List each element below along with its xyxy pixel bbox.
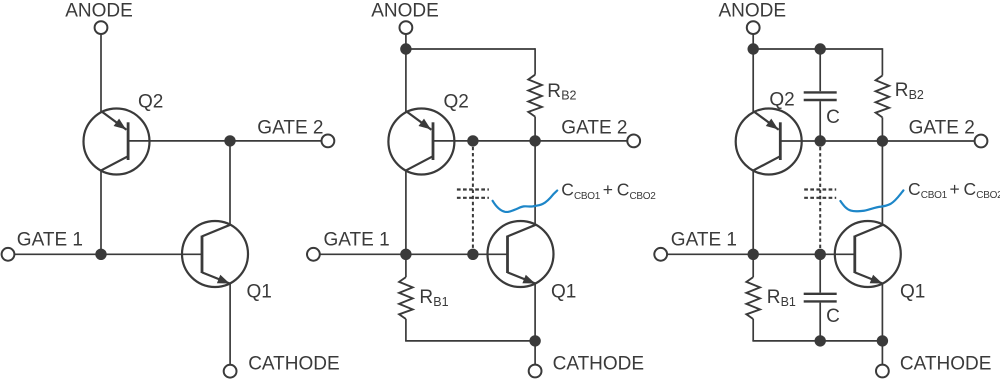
pointer curve to CCBO label (circuit 3) <box>840 190 903 211</box>
terminal ANODE (circuit 1) <box>95 21 108 34</box>
svg-text:GATE 1: GATE 1 <box>671 230 737 251</box>
terminal CATHODE (circuit 3) <box>876 365 889 378</box>
resistor RB1 (circuit 3) <box>746 277 760 319</box>
svg-text:C: C <box>826 306 840 327</box>
wire ANODE to Q2 emitter (circuit 2) <box>405 35 407 113</box>
svg-text:GATE 2: GATE 2 <box>561 117 627 138</box>
wire Q2 collector to GATE 1 node (circuit 3) <box>752 170 754 255</box>
wire RB1 top stub (circuit 2) <box>405 254 407 277</box>
transistor Q2 (PNP, circuit 2) <box>388 109 454 175</box>
label CCBO1 + CCBO2 (circuit 3) <box>908 179 1000 201</box>
junction Q2 collector / GATE 1 rail <box>95 249 106 260</box>
wire RB2 top stub (circuit 3) <box>881 48 883 75</box>
wire to CATHODE (circuit 2) <box>534 341 536 364</box>
svg-text:B2: B2 <box>561 89 576 103</box>
svg-text:Q1: Q1 <box>551 281 576 302</box>
svg-text:B1: B1 <box>781 295 796 309</box>
wire Q1 collector <box>229 141 231 225</box>
terminal GATE 2 (circuit 2) <box>627 135 640 148</box>
wire ANODE to Q2 emitter (circuit 3) <box>752 35 754 113</box>
wire Q2 collector to GATE 1 node (circuit 2) <box>405 170 407 255</box>
svg-text:C: C <box>617 180 630 200</box>
wire lower capacitor stub lower (circuit 3) <box>819 303 821 341</box>
wire GATE 1 rail (circuit 2) <box>320 253 508 255</box>
wire top capacitor stub upper <box>819 49 821 91</box>
junction RB2 / Q1 collector (circuit 2) <box>529 135 540 146</box>
junction RB1 / GATE 1 rail (circuit 2) <box>400 249 411 260</box>
junction dashed capacitor tap / GATE 2 rail <box>467 135 478 146</box>
terminal ANODE (circuit 3) <box>747 21 760 34</box>
resistor RB2 (circuit 3) <box>876 76 890 118</box>
svg-text:CBO2: CBO2 <box>630 191 657 202</box>
junction RB2 / Q1 collector (circuit 3) <box>877 135 888 146</box>
wire bottom rail (circuit 3) <box>752 340 882 342</box>
wire RB2 bottom stub <box>534 117 536 141</box>
terminal GATE 1 (circuit 1) <box>2 248 15 261</box>
svg-text:R: R <box>767 287 781 308</box>
wire top capacitor stub lower <box>819 101 821 141</box>
wire Q1 collector (circuit 2) <box>534 141 536 225</box>
label CCBO1 + CCBO2 (circuit 2) <box>561 180 656 202</box>
junction Q1 emitter / bottom rail (circuit 3) <box>877 335 888 346</box>
svg-text:CATHODE: CATHODE <box>553 353 644 374</box>
label RB2 (circuit 3) <box>895 80 924 102</box>
wire RB1 top stub (circuit 3) <box>752 254 754 277</box>
junction Q1 emitter / bottom rail (circuit 2) <box>529 335 540 346</box>
svg-text:Q2: Q2 <box>138 91 163 112</box>
svg-text:CBO2: CBO2 <box>976 190 1000 201</box>
svg-text:ANODE: ANODE <box>719 1 787 22</box>
wire Q1 emitter down (circuit 2) <box>534 284 536 341</box>
junction lower capacitor / bottom rail (circuit 3) <box>815 335 826 346</box>
wire RB2 bottom stub (circuit 3) <box>881 117 883 141</box>
svg-text:B2: B2 <box>909 88 924 102</box>
svg-text:R: R <box>895 80 909 101</box>
junction capacitor branch / top rail (circuit 3) <box>815 43 826 54</box>
junction capacitor branch / GATE 2 rail (circuit 3) <box>815 135 826 146</box>
svg-text:C: C <box>826 107 840 128</box>
svg-text:R: R <box>547 81 561 102</box>
wire lower capacitor stub upper (circuit 3) <box>819 254 821 292</box>
junction ANODE node (circuit 3) <box>748 43 759 54</box>
svg-text:C: C <box>964 179 977 199</box>
wire ANODE to Q2 emitter <box>100 35 102 113</box>
svg-text:B1: B1 <box>433 295 448 309</box>
svg-text:CBO1: CBO1 <box>921 190 948 201</box>
terminal GATE 1 (circuit 3) <box>654 248 667 261</box>
svg-text:R: R <box>419 287 433 308</box>
label RB1 (circuit 2) <box>419 287 448 309</box>
terminal CATHODE (circuit 1) <box>224 365 237 378</box>
wire RB1 bottom stub (circuit 3) <box>752 319 754 341</box>
transistor Q1 (NPN, circuit 3) <box>835 221 901 287</box>
svg-text:ANODE: ANODE <box>65 1 133 22</box>
svg-text:Q1: Q1 <box>247 281 272 302</box>
wire Q2 collector to GATE 1 node <box>100 170 102 255</box>
svg-text:CATHODE: CATHODE <box>248 353 339 374</box>
transistor Q2 (PNP, circuit 1) <box>84 109 150 175</box>
terminal GATE 2 (circuit 1) <box>322 135 335 148</box>
capacitor CCBO1+CCBO2 dashed plates (circuit 2) <box>457 188 489 190</box>
wire GATE 2 rail <box>128 140 322 142</box>
transistor Q1 (NPN, circuit 2) <box>488 221 554 287</box>
svg-text:C: C <box>908 179 921 199</box>
terminal CATHODE (circuit 2) <box>529 365 542 378</box>
capacitor C upper (circuit 3) <box>804 91 837 93</box>
terminal GATE 2 (circuit 3) <box>975 135 988 148</box>
svg-text:ANODE: ANODE <box>371 1 439 22</box>
wire GATE 1 rail <box>14 253 202 255</box>
wire bottom rail (circuit 2) <box>405 340 535 342</box>
wire to CATHODE (circuit 3) <box>881 341 883 364</box>
transistor Q2 (PNP, circuit 3) <box>736 109 802 175</box>
svg-text:Q2: Q2 <box>769 90 794 111</box>
wire GATE 2 rail (circuit 3) <box>780 140 974 142</box>
svg-text:+: + <box>603 180 613 200</box>
junction dashed capacitor tap / GATE 1 rail (circuit 2) <box>467 249 478 260</box>
capacitor CCBO1+CCBO2 dashed plates (circuit 3) <box>804 188 836 190</box>
net dashed collector-base line (circuit 2) <box>472 147 474 249</box>
junction capacitor branch / GATE 1 rail (circuit 3) <box>815 249 826 260</box>
wire GATE 2 rail (circuit 2) <box>433 140 627 142</box>
svg-text:GATE 2: GATE 2 <box>257 117 323 138</box>
label RB1 (circuit 3) <box>767 287 796 309</box>
resistor RB1 (circuit 2) <box>399 277 413 319</box>
wire anode top rail (circuit 3) <box>753 48 882 50</box>
label RB2 (circuit 2) <box>547 81 576 103</box>
junction ANODE node (circuit 2) <box>400 43 411 54</box>
capacitor C lower (circuit 3) <box>804 293 837 295</box>
terminal GATE 1 (circuit 2) <box>307 248 320 261</box>
wire GATE 1 rail (circuit 3) <box>667 253 855 255</box>
wire Q1 emitter to CATHODE <box>229 284 231 365</box>
svg-text:CBO1: CBO1 <box>574 191 601 202</box>
wire Q1 emitter down (circuit 3) <box>881 284 883 341</box>
svg-text:Q1: Q1 <box>900 281 925 302</box>
terminal ANODE (circuit 2) <box>400 21 413 34</box>
svg-text:CATHODE: CATHODE <box>900 353 991 374</box>
svg-text:GATE 1: GATE 1 <box>17 230 83 251</box>
svg-text:+: + <box>950 179 960 199</box>
svg-text:GATE 2: GATE 2 <box>909 117 975 138</box>
junction RB1 / GATE 1 rail (circuit 3) <box>748 249 759 260</box>
wire RB2 top stub <box>534 48 536 74</box>
pointer curve to CCBO label (circuit 2) <box>493 191 558 212</box>
svg-text:Q2: Q2 <box>444 91 469 112</box>
svg-text:GATE 1: GATE 1 <box>324 230 390 251</box>
resistor RB2 (circuit 2) <box>528 75 542 117</box>
junction Q1 collector / GATE 2 rail <box>224 135 235 146</box>
wire Q1 collector (circuit 3) <box>881 141 883 225</box>
svg-text:C: C <box>561 180 574 200</box>
transistor Q1 (NPN, circuit 1) <box>182 221 248 287</box>
net dashed collector-base line (circuit 3) <box>819 147 821 248</box>
wire anode top rail to RB2 branch <box>406 48 535 50</box>
wire RB1 bottom stub (circuit 2) <box>405 319 407 341</box>
